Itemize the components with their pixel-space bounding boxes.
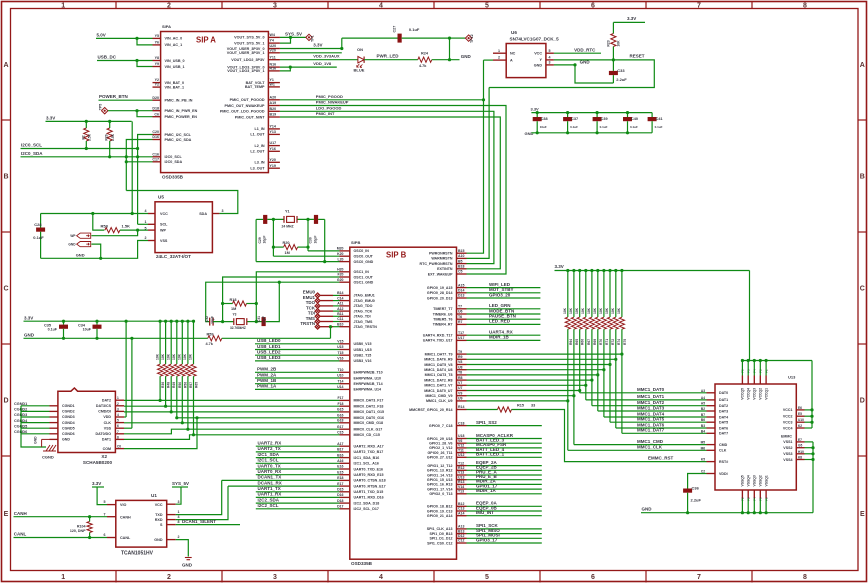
test point TP12 xyxy=(450,37,466,39)
svg-text:C39: C39 xyxy=(601,117,608,121)
svg-text:M6: M6 xyxy=(701,446,706,450)
svg-text:I2C2_SCL_D17: I2C2_SCL_D17 xyxy=(354,507,379,511)
svg-text:TP5: TP5 xyxy=(99,104,103,111)
svg-text:VOUT_SYS_5V_0: VOUT_SYS_5V_0 xyxy=(234,36,264,40)
resistor R72 10K pullup xyxy=(609,271,611,318)
wire UART0_TX xyxy=(256,468,340,470)
svg-text:SCL: SCL xyxy=(160,223,168,227)
wire PMIC_I2C_SCL down to U5 SCL xyxy=(138,135,153,225)
capacitor C35 0.1uF xyxy=(63,321,65,324)
svg-text:R2: R2 xyxy=(81,135,85,139)
SIP A right pins xyxy=(268,36,280,38)
svg-text:U10: U10 xyxy=(337,374,343,378)
svg-text:K20: K20 xyxy=(337,252,343,256)
X2 pin CLK xyxy=(115,422,124,424)
svg-text:GND: GND xyxy=(534,63,543,67)
X2 pin CMD/DI xyxy=(115,410,124,412)
wire BATT_LED_1 xyxy=(467,456,542,458)
U1 pin 8 S xyxy=(167,524,176,526)
svg-text:U14: U14 xyxy=(337,385,343,389)
svg-text:2.2uF: 2.2uF xyxy=(616,77,627,82)
SIP B left pins xyxy=(340,250,350,252)
svg-text:T7: T7 xyxy=(458,305,462,309)
svg-text:U9: U9 xyxy=(458,397,463,401)
svg-text:B18: B18 xyxy=(458,265,464,269)
svg-text:CANH: CANH xyxy=(120,515,131,519)
svg-text:D12: D12 xyxy=(458,534,464,538)
svg-text:D15: D15 xyxy=(337,488,343,492)
wire pullup R50 to CD row xyxy=(177,417,197,419)
svg-text:SN74LVC1G07_DCK_5: SN74LVC1G07_DCK_5 xyxy=(510,36,560,41)
svg-text:B15: B15 xyxy=(458,249,464,253)
svg-text:R69: R69 xyxy=(593,339,597,345)
svg-text:L2_IN: L2_IN xyxy=(254,144,264,148)
svg-text:VIN_AC_0: VIN_AC_0 xyxy=(165,37,183,41)
wire 3.3V feed down to U5 VCC xyxy=(131,121,133,213)
svg-text:GND: GND xyxy=(24,332,35,337)
svg-text:JTAG_TRSTN: JTAG_TRSTN xyxy=(354,325,378,329)
svg-text:GPIO1_16_R13: GPIO1_16_R13 xyxy=(427,483,453,487)
svg-text:PMIC_IN_PB_IN: PMIC_IN_PB_IN xyxy=(165,99,193,103)
svg-text:B2: B2 xyxy=(701,407,705,411)
svg-text:PMIC_IN_PWR_EN: PMIC_IN_PWR_EN xyxy=(165,109,198,113)
wire I2C0_SCL xyxy=(21,148,138,150)
wire I2C1_SCL xyxy=(256,462,340,464)
wire PMIC_I2C_SDA down to SDA loop xyxy=(126,140,152,191)
wire SCL vertical to pin xyxy=(138,223,148,225)
svg-text:PWR_LED: PWR_LED xyxy=(377,54,400,59)
svg-text:V16: V16 xyxy=(337,357,343,361)
svg-text:OSC1_OUT: OSC1_OUT xyxy=(354,275,374,279)
svg-text:VOUT_SYS_5V_1: VOUT_SYS_5V_1 xyxy=(234,41,264,45)
svg-text:VDDI: VDDI xyxy=(719,472,728,476)
wire EQEP_2A xyxy=(467,465,542,467)
wire WP tag xyxy=(91,230,137,236)
svg-text:VSS3: VSS3 xyxy=(783,452,792,456)
svg-text:24 MHZ: 24 MHZ xyxy=(282,224,294,228)
svg-text:I2C1_SCL_A16: I2C1_SCL_A16 xyxy=(354,462,379,466)
svg-text:R36: R36 xyxy=(161,382,165,388)
svg-text:10pF: 10pF xyxy=(313,236,317,244)
svg-text:3.3V: 3.3V xyxy=(313,43,322,48)
svg-text:A19: A19 xyxy=(270,101,277,105)
wire GPIO3_17 xyxy=(467,542,542,544)
resistor R67 10K pullup xyxy=(585,271,587,318)
wire MDIR_1B xyxy=(467,339,541,341)
wire I2C0_SDA pin C17 xyxy=(126,161,152,163)
svg-text:A3: A3 xyxy=(701,389,705,393)
svg-text:1: 1 xyxy=(61,2,65,9)
svg-text:C32: C32 xyxy=(205,316,209,322)
svg-text:A12: A12 xyxy=(337,307,343,311)
svg-text:OSC1_GND: OSC1_GND xyxy=(354,281,374,285)
svg-text:5: 5 xyxy=(485,2,489,9)
wire MODE_BTN xyxy=(467,313,541,315)
svg-text:R24: R24 xyxy=(421,52,429,56)
svg-text:T15: T15 xyxy=(337,351,343,355)
svg-text:F18: F18 xyxy=(337,402,343,406)
svg-text:0.1uF: 0.1uF xyxy=(630,125,638,129)
svg-text:T9: T9 xyxy=(458,350,462,354)
svg-text:SPI1_CS0_C12: SPI1_CS0_C12 xyxy=(427,541,452,545)
resistor R29 1.5K pullup I2C0_SDA xyxy=(109,121,111,128)
svg-text:G17: G17 xyxy=(337,425,344,429)
svg-text:V13: V13 xyxy=(458,471,464,475)
svg-text:1.5K: 1.5K xyxy=(88,133,92,141)
svg-text:WP: WP xyxy=(70,234,76,238)
svg-text:GPIO1_28_V6: GPIO1_28_V6 xyxy=(429,442,452,446)
svg-text:EHRPWM2B_T10: EHRPWM2B_T10 xyxy=(354,371,383,375)
svg-text:R8: R8 xyxy=(458,376,463,380)
node JTAG TCK xyxy=(320,310,333,312)
capacitor C40 0.1uF xyxy=(627,113,629,117)
svg-text:U7: U7 xyxy=(458,386,463,390)
X2 pin DAT1 xyxy=(115,438,124,440)
eMMC right pins xyxy=(796,409,804,411)
U6 pin 1 xyxy=(493,52,506,54)
svg-text:VDD_3V3AUX: VDD_3V3AUX xyxy=(313,54,340,59)
svg-text:VSS1: VSS1 xyxy=(783,440,792,444)
resistor R75 10K pullup xyxy=(621,271,623,318)
svg-text:MMCRST_GPIO1_20_R14: MMCRST_GPIO1_20_R14 xyxy=(409,408,452,412)
svg-text:VCC3: VCC3 xyxy=(783,421,793,425)
wire VCC loop xyxy=(811,361,813,429)
svg-text:PWM_1A: PWM_1A xyxy=(257,384,277,389)
wire USB_LED3 xyxy=(255,360,340,362)
buffer U6 SN74LVC1G07_DCK_5 xyxy=(506,44,546,78)
svg-text:VOUT_LDO2_3P3V: VOUT_LDO2_3P3V xyxy=(231,58,265,62)
svg-text:SPI1_SS2: SPI1_SS2 xyxy=(476,420,497,425)
resistor R65 10K xyxy=(193,321,195,364)
wire RESET net xyxy=(489,60,654,88)
svg-text:GPIO0_19_A15: GPIO0_19_A15 xyxy=(427,286,453,290)
svg-text:GPIO1_29_U18: GPIO1_29_U18 xyxy=(427,437,453,441)
svg-text:U12: U12 xyxy=(458,453,464,457)
svg-text:7: 7 xyxy=(697,574,701,581)
wire SPI1_MOSI xyxy=(467,537,542,539)
wire IMU_INT xyxy=(467,515,542,517)
svg-text:E: E xyxy=(4,511,9,518)
svg-text:CMD/DI: CMD/DI xyxy=(98,410,111,414)
svg-text:M20: M20 xyxy=(337,247,344,251)
svg-text:TRSTN: TRSTN xyxy=(300,321,315,326)
svg-text:MMC1_DAT5: MMC1_DAT5 xyxy=(637,417,665,422)
svg-text:CGND1: CGND1 xyxy=(62,404,75,408)
capacitor C32 10pF xyxy=(209,318,211,326)
svg-text:DAT7: DAT7 xyxy=(719,432,728,436)
svg-text:VIN_AC_1: VIN_AC_1 xyxy=(165,43,183,47)
wire OSC0_GND xyxy=(256,261,339,263)
svg-text:GPIO0_21_A14: GPIO0_21_A14 xyxy=(427,514,453,518)
svg-text:BATT_LED_1: BATT_LED_1 xyxy=(476,452,505,457)
svg-text:R23: R23 xyxy=(607,40,611,46)
svg-text:C38: C38 xyxy=(541,117,548,121)
svg-text:A16: A16 xyxy=(337,459,343,463)
resistor R2 1.5K pullup I2C0_SCL xyxy=(85,121,87,128)
svg-text:3: 3 xyxy=(178,500,180,504)
svg-text:UART0_RXD_E15: UART0_RXD_E15 xyxy=(354,473,384,477)
svg-text:MMC0_DAT2_F18: MMC0_DAT2_F18 xyxy=(354,405,384,409)
wire TRSTN pulldown to R59 xyxy=(330,327,332,339)
svg-text:8: 8 xyxy=(803,574,807,581)
svg-text:TIMER7_T7: TIMER7_T7 xyxy=(433,307,452,311)
svg-text:R72: R72 xyxy=(611,339,615,345)
svg-text:32.768kHZ: 32.768kHZ xyxy=(230,326,246,330)
svg-text:2: 2 xyxy=(145,236,147,240)
svg-text:1: 1 xyxy=(61,574,65,581)
svg-text:C40: C40 xyxy=(631,117,638,121)
svg-text:GND: GND xyxy=(62,438,70,442)
svg-text:JTAG_TCK: JTAG_TCK xyxy=(354,309,373,313)
ground CGND symbol xyxy=(46,445,50,451)
wire UART2_RX xyxy=(256,445,340,447)
svg-text:UART2_TXD_B17: UART2_TXD_B17 xyxy=(354,450,384,454)
svg-text:E16: E16 xyxy=(337,465,343,469)
wire PRU_E_B xyxy=(467,479,542,481)
svg-text:K8: K8 xyxy=(798,456,802,460)
test point TP5 xyxy=(102,108,108,114)
svg-text:R65: R65 xyxy=(575,339,579,345)
resistor R18 1M xyxy=(233,301,247,306)
svg-text:IMU_INT: IMU_INT xyxy=(476,510,494,515)
svg-text:DCAN1_TX: DCAN1_TX xyxy=(258,475,282,480)
svg-text:JTAG_TMS: JTAG_TMS xyxy=(354,320,374,324)
svg-text:GPIO0_27_U12: GPIO0_27_U12 xyxy=(427,456,453,460)
svg-text:I2C2_SDA: I2C2_SDA xyxy=(258,497,280,502)
svg-text:VSSQ2: VSSQ2 xyxy=(759,475,763,486)
svg-text:R74: R74 xyxy=(617,339,621,345)
svg-text:MMC1_DAT2_R8: MMC1_DAT2_R8 xyxy=(424,378,452,382)
wire X2 GND pin xyxy=(42,438,50,440)
X2 pin CGND2 xyxy=(50,410,58,412)
svg-text:Y2: Y2 xyxy=(155,83,159,87)
X2 pin CGND6 xyxy=(50,433,58,435)
svg-text:10K: 10K xyxy=(593,307,597,314)
svg-text:U15: U15 xyxy=(337,345,343,349)
node JTAG EMU0 xyxy=(320,294,333,296)
svg-text:GND: GND xyxy=(580,59,591,64)
capacitor C29 10pF xyxy=(263,215,267,224)
svg-text:120, DNP: 120, DNP xyxy=(70,529,86,533)
wire BATT_LED_4 xyxy=(467,452,542,454)
svg-text:1M: 1M xyxy=(285,251,290,255)
svg-text:R66: R66 xyxy=(581,339,585,345)
svg-text:R13: R13 xyxy=(458,480,464,484)
wire MMC1_DAT2 xyxy=(467,379,592,381)
svg-text:A11: A11 xyxy=(337,302,343,306)
eMMC bottom pins VSSQ xyxy=(741,490,743,499)
svg-text:MMC0_CMD_G18: MMC0_CMD_G18 xyxy=(354,421,384,425)
svg-text:USB3_V16: USB3_V16 xyxy=(354,359,372,363)
svg-text:VIO: VIO xyxy=(120,503,126,507)
svg-text:U6: U6 xyxy=(458,310,463,314)
svg-text:GND: GND xyxy=(461,54,472,59)
svg-text:GPIO1_12_T12: GPIO1_12_T12 xyxy=(427,464,452,468)
svg-text:10K: 10K xyxy=(605,307,609,314)
capacitor C41 0.1uF xyxy=(651,113,653,117)
svg-text:1.5K: 1.5K xyxy=(122,223,131,228)
wire EQEP_0B xyxy=(467,510,542,512)
svg-text:C6: C6 xyxy=(154,112,159,116)
svg-text:B5: B5 xyxy=(458,259,463,263)
svg-text:TP12: TP12 xyxy=(470,34,474,43)
wire SPI1_SCK xyxy=(467,528,542,530)
node JTAG EMU1 xyxy=(320,300,333,302)
wire GND down to SD VSS xyxy=(131,338,133,428)
svg-text:L3_OUT: L3_OUT xyxy=(250,167,265,171)
svg-text:0.1uF: 0.1uF xyxy=(48,328,58,332)
svg-text:L1_OUT: L1_OUT xyxy=(250,133,265,137)
svg-text:U13: U13 xyxy=(788,375,796,380)
svg-text:R49: R49 xyxy=(172,382,176,388)
svg-text:DAT5: DAT5 xyxy=(719,421,728,425)
svg-text:PMIC_OUT_NINT: PMIC_OUT_NINT xyxy=(235,115,265,119)
svg-text:T13: T13 xyxy=(458,490,464,494)
svg-text:DAT3/CS: DAT3/CS xyxy=(96,404,112,408)
svg-text:1M: 1M xyxy=(231,307,236,311)
svg-text:C30: C30 xyxy=(309,237,313,243)
svg-text:SDA: SDA xyxy=(199,212,207,216)
svg-text:CLK: CLK xyxy=(104,421,112,425)
wire MMC0_CD xyxy=(124,418,340,449)
X2 pin VDD xyxy=(115,416,124,418)
svg-text:R15: R15 xyxy=(517,404,524,408)
wire MMC1_DAT6 xyxy=(467,358,616,360)
wire I2C1_SDA xyxy=(256,457,340,459)
svg-text:3: 3 xyxy=(273,2,277,9)
svg-text:C13: C13 xyxy=(458,507,464,511)
svg-text:PMIC_POWER_EN: PMIC_POWER_EN xyxy=(165,115,198,119)
capacitor C39 0.1uF xyxy=(596,113,598,117)
wire SD VSS to GND xyxy=(124,427,132,429)
wire SD VDD to 3.3V xyxy=(124,416,126,418)
svg-text:C31: C31 xyxy=(257,316,261,322)
U6 pin 3 GND xyxy=(546,64,554,66)
svg-text:CANL: CANL xyxy=(14,532,27,537)
svg-text:Y14: Y14 xyxy=(270,125,276,129)
svg-text:R9: R9 xyxy=(458,355,463,359)
wire OSC1_OUT xyxy=(223,277,340,322)
svg-text:PWM_1B: PWM_1B xyxy=(257,378,277,383)
svg-text:L2_OUT: L2_OUT xyxy=(250,150,265,154)
svg-text:U17: U17 xyxy=(458,336,464,340)
svg-text:X2: X2 xyxy=(101,454,107,459)
svg-text:1: 1 xyxy=(145,220,147,224)
svg-text:G5: G5 xyxy=(798,444,802,448)
svg-text:0.1uF: 0.1uF xyxy=(570,125,578,129)
svg-text:DAT0: DAT0 xyxy=(719,391,728,395)
IC SIP A OSD335B power section xyxy=(161,32,269,173)
wire VDD_RTC xyxy=(554,52,601,54)
svg-text:Y4: Y4 xyxy=(270,39,274,43)
X2 pin CGND5 xyxy=(50,427,58,429)
svg-text:K2: K2 xyxy=(798,424,802,428)
svg-text:D14: D14 xyxy=(458,289,464,293)
wire PWR_LED net xyxy=(364,59,418,61)
svg-text:GPIO3_17: GPIO3_17 xyxy=(476,537,498,542)
wire PWM_2A xyxy=(255,377,340,379)
svg-text:10K: 10K xyxy=(563,307,567,314)
svg-text:CMD: CMD xyxy=(719,443,728,447)
svg-text:R16: R16 xyxy=(270,67,277,71)
U1 pin 4 RXD xyxy=(167,519,176,521)
svg-text:G18: G18 xyxy=(337,419,344,423)
ground symbol U1 xyxy=(185,557,192,559)
svg-text:U17: U17 xyxy=(270,141,277,145)
U1 pin 3 VCC xyxy=(167,503,176,505)
svg-text:EMMC: EMMC xyxy=(781,435,792,439)
svg-text:UART1_RX: UART1_RX xyxy=(258,492,282,497)
svg-text:PMIC_I2C_SDA: PMIC_I2C_SDA xyxy=(165,138,192,142)
svg-text:L1_IN: L1_IN xyxy=(254,127,264,131)
svg-text:USB_LED1: USB_LED1 xyxy=(257,344,281,349)
svg-text:USB_LED0: USB_LED0 xyxy=(257,338,281,343)
svg-text:C18: C18 xyxy=(458,421,464,425)
wire MMC1_CLK xyxy=(467,400,568,402)
svg-text:C16: C16 xyxy=(152,152,159,156)
svg-text:Y2: Y2 xyxy=(155,78,159,82)
svg-text:I2C0_SDA: I2C0_SDA xyxy=(165,160,183,164)
wire OSC0_OUT xyxy=(273,255,339,257)
svg-text:C0: C0 xyxy=(117,445,121,449)
wire DCAN1_SILENT xyxy=(176,524,240,526)
svg-text:MMC1_DAT0_U7: MMC1_DAT0_U7 xyxy=(424,389,452,393)
svg-text:R20: R20 xyxy=(283,241,290,245)
svg-text:A10: A10 xyxy=(458,254,464,258)
wire DCAN1_TX from TXD xyxy=(176,480,222,514)
svg-text:JTAG_TDO: JTAG_TDO xyxy=(354,304,373,308)
svg-text:VSSQ3: VSSQ3 xyxy=(753,475,757,486)
svg-text:VCC2: VCC2 xyxy=(783,415,793,419)
resistor R48 10K xyxy=(165,321,167,364)
svg-text:U18: U18 xyxy=(458,434,464,438)
X2 pin GND xyxy=(50,438,58,440)
wire SPI1_SS2 xyxy=(467,425,542,427)
svg-text:1: 1 xyxy=(178,510,180,514)
svg-text:U6: U6 xyxy=(511,30,517,35)
svg-text:10K: 10K xyxy=(617,307,621,314)
wire U6 GND to C33 xyxy=(554,65,614,83)
svg-text:R58: R58 xyxy=(101,223,109,228)
svg-text:VSS: VSS xyxy=(104,426,112,430)
wire OSC0_IN xyxy=(308,250,340,252)
svg-text:4.7k: 4.7k xyxy=(206,342,214,346)
svg-text:OSD335B: OSD335B xyxy=(351,561,373,566)
svg-text:DAT6: DAT6 xyxy=(719,426,728,430)
svg-text:USB0_V15: USB0_V15 xyxy=(354,342,372,346)
svg-text:WP: WP xyxy=(160,229,166,233)
svg-text:B14: B14 xyxy=(337,291,343,295)
svg-text:R29: R29 xyxy=(105,134,109,140)
svg-text:GPIO0_28_D14: GPIO0_28_D14 xyxy=(427,291,453,295)
svg-text:C29: C29 xyxy=(258,237,262,243)
wire MOT_STBY xyxy=(467,292,541,294)
wire PGOOD down to SIP B PWRONRSTN xyxy=(467,60,484,253)
SIP B OSD335B main block xyxy=(350,247,457,559)
svg-text:8: 8 xyxy=(178,520,180,524)
svg-text:F20: F20 xyxy=(337,273,343,277)
svg-text:MDIR_1B: MDIR_1B xyxy=(489,335,510,340)
wire U1 GND xyxy=(176,540,189,557)
svg-text:10K: 10K xyxy=(183,353,187,360)
svg-text:2: 2 xyxy=(117,402,119,406)
svg-text:C27: C27 xyxy=(393,26,397,33)
svg-text:UART4_TXD_U17: UART4_TXD_U17 xyxy=(423,339,453,343)
svg-text:6: 6 xyxy=(591,574,595,581)
svg-text:USB1_U15: USB1_U15 xyxy=(354,348,372,352)
svg-text:R59: R59 xyxy=(207,332,214,336)
svg-text:UART1_TX: UART1_TX xyxy=(258,486,281,491)
